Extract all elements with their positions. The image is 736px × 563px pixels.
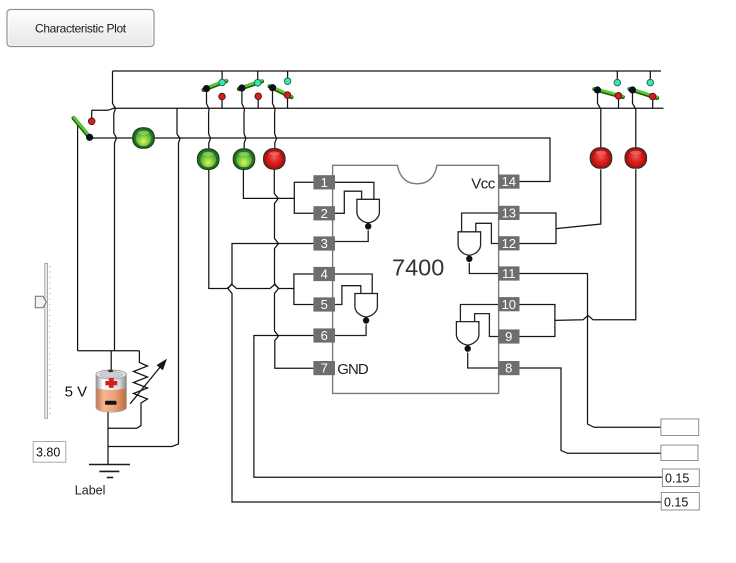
svg-text:3: 3 xyxy=(321,236,328,251)
wire: S2 cyan stub xyxy=(221,71,223,83)
wire: S5 common to LED5 xyxy=(598,90,601,148)
ground symbol xyxy=(89,465,130,478)
slider (voltage control) xyxy=(35,263,50,418)
resistor R1 arrow xyxy=(130,360,166,404)
wire: S4 cyan stub xyxy=(287,71,289,81)
pin 1 xyxy=(313,175,335,190)
svg-text:10: 10 xyxy=(502,297,516,312)
svg-text:5: 5 xyxy=(321,297,328,312)
svg-text:2: 2 xyxy=(321,206,328,221)
LED D2 (green) xyxy=(197,149,219,170)
svg-text:0.15: 0.15 xyxy=(664,495,688,509)
svg-text:Characteristic Plot: Characteristic Plot xyxy=(35,21,127,35)
op-amp/IC U1: 7400 quad NAND body xyxy=(333,165,499,393)
pin 2 xyxy=(313,206,335,221)
readout box: slider value 3.80 xyxy=(33,442,66,463)
wire: bus2 to ground return xyxy=(108,109,181,447)
wire: S6 common to LED6 xyxy=(633,90,636,148)
svg-text:GND: GND xyxy=(337,361,369,378)
LED D1 (power, green) xyxy=(133,128,155,149)
wire: ground bus (bus2, red-throw rail) xyxy=(92,108,664,110)
LED D3 (green) xyxy=(233,149,255,170)
pin 12 xyxy=(498,236,519,251)
pin 13 xyxy=(498,206,519,221)
pin 9 xyxy=(498,329,519,344)
readout box2 (pin 8, empty) xyxy=(661,445,698,460)
switch S3 xyxy=(238,79,262,99)
wire: pin 8 output to readout box2 xyxy=(520,368,661,453)
wire: battery plus vertical from bus1 xyxy=(113,71,117,351)
svg-text:1: 1 xyxy=(321,175,328,190)
svg-text:5 V: 5 V xyxy=(65,384,88,401)
wire: pins 10-9 input bracket xyxy=(520,305,555,337)
value label: 7400 xyxy=(392,255,444,281)
pin 10 xyxy=(498,297,519,312)
wire: S2 common to LED2 xyxy=(207,89,211,150)
wire: S4 red stub xyxy=(287,95,289,108)
wire: battery negative to ground xyxy=(107,411,109,465)
pin 5 xyxy=(313,297,335,312)
svg-text:13: 13 xyxy=(502,206,516,221)
pin 8 xyxy=(498,361,519,376)
svg-text:9: 9 xyxy=(505,329,512,344)
pin 3 xyxy=(313,236,335,251)
svg-text:7400: 7400 xyxy=(392,255,444,281)
wire: LED2 to pins 4-5 bracket xyxy=(209,169,294,289)
wire: LED4 down to pin 7 ground xyxy=(274,169,313,368)
wire: LED5 to pins 13-12 bracket xyxy=(556,169,601,228)
wire: battery top node horizontal xyxy=(78,350,140,352)
svg-text:7: 7 xyxy=(321,361,328,376)
readout box1 (pin 11, empty) xyxy=(661,419,699,436)
wire: S6 cyan stub xyxy=(649,71,651,83)
resistor R1 (variable) zigzag and return wire xyxy=(108,351,148,429)
wire: pins 4-5 input bracket xyxy=(294,274,314,305)
pin 4 xyxy=(313,267,335,282)
svg-text:12: 12 xyxy=(502,236,516,251)
pin 6 xyxy=(313,328,335,343)
pin 14 xyxy=(498,174,519,189)
LED D5 (red) xyxy=(590,148,612,169)
nand-gate U1B xyxy=(335,274,377,336)
node GND label xyxy=(337,361,369,378)
wire: S3 red stub xyxy=(257,96,259,108)
battery B1 5V xyxy=(96,370,126,413)
node Vcc label xyxy=(471,176,496,193)
switch S1 (power) xyxy=(74,117,95,141)
wire: S6 red stub xyxy=(652,97,654,109)
pin 7 xyxy=(313,361,335,376)
wire: Vcc bus from switch S1 to pin 14 (bus3) xyxy=(90,138,550,182)
wire: S3 common to LED3 xyxy=(242,88,246,150)
button: Characteristic Plot xyxy=(7,10,154,47)
LED D6 (red) xyxy=(625,148,647,169)
wire: LED6 to pins 10-9 bracket xyxy=(555,169,636,320)
LED D4 (red) xyxy=(264,149,286,170)
wire: LED3 to pins 1-2 bracket xyxy=(243,169,294,198)
svg-text:6: 6 xyxy=(321,328,328,343)
wire: S5 red stub xyxy=(618,96,620,109)
svg-text:14: 14 xyxy=(502,174,516,189)
wire: S1 throw terminal down to battery node xyxy=(77,125,79,351)
wire: pin 6 output to readout box3 xyxy=(254,336,663,478)
svg-text:4: 4 xyxy=(321,267,328,282)
label: Label xyxy=(75,484,106,498)
readout box4 value 0.15 xyxy=(661,493,699,511)
svg-text:3.80: 3.80 xyxy=(36,445,60,459)
nand-gate U1A xyxy=(335,182,379,241)
pin 11 xyxy=(498,266,519,281)
wire: pins 13-12 input bracket xyxy=(520,213,557,244)
nand-gate U1C xyxy=(458,213,498,274)
svg-text:11: 11 xyxy=(502,266,516,281)
svg-text:Label: Label xyxy=(75,484,106,498)
wire: battery positive stub xyxy=(110,351,112,371)
wire: S1 red throw stub xyxy=(91,110,93,121)
wire: S3 cyan stub xyxy=(257,71,259,83)
wire: S4 common to LED4 xyxy=(273,88,277,150)
switch S6 xyxy=(629,79,657,100)
wire: S2 red stub xyxy=(221,97,223,109)
wire: +5V top bus (bus1) xyxy=(113,70,662,72)
svg-text:0.15: 0.15 xyxy=(665,471,689,485)
wire: pin 11 output to readout box1 xyxy=(520,274,661,428)
wire: S5 cyan stub xyxy=(616,71,618,83)
wire: pins 1-2 input bracket xyxy=(294,182,313,213)
nand-gate U1D xyxy=(456,305,498,369)
switch S4 xyxy=(269,78,292,99)
switch S5 xyxy=(594,79,623,99)
svg-text:8: 8 xyxy=(505,361,512,376)
value label: 5 V xyxy=(65,384,88,401)
svg-text:Vcc: Vcc xyxy=(471,176,496,193)
readout box3 value 0.15 xyxy=(662,469,699,487)
switch S2 xyxy=(203,79,226,100)
wire: pin 3 output to readout box4 xyxy=(228,244,661,503)
